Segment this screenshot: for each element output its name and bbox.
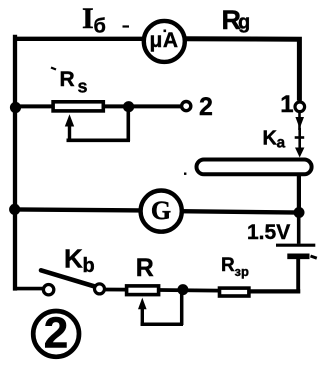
switch Kb left contact	[43, 285, 53, 295]
wire capsule to G row	[297, 176, 301, 213]
label Kb	[64, 244, 95, 278]
svg-text:a: a	[277, 135, 286, 152]
switch Ka arrow upper	[295, 113, 304, 130]
svg-text:I: I	[82, 2, 94, 35]
wire R wiper loop	[141, 291, 183, 325]
label I_b	[82, 2, 106, 38]
wiper arrow of Rs	[65, 114, 74, 142]
wire Kb to R	[105, 288, 127, 292]
speck	[184, 173, 186, 175]
wire left vertical bus	[13, 35, 17, 291]
battery B1 bottom lead	[296, 259, 300, 293]
battery B1 short plate	[287, 253, 309, 259]
wire Rzr to battery corner	[251, 289, 301, 293]
wire R to Rzr	[160, 288, 219, 292]
node junction left / G row	[9, 204, 20, 215]
svg-text:б: б	[94, 16, 106, 38]
label Rzr	[221, 255, 249, 279]
node junction left / Rs row	[10, 102, 21, 113]
svg-text:K: K	[64, 244, 83, 274]
battery B1 long plate	[276, 244, 315, 247]
rheostat R	[127, 286, 159, 295]
wire Rs wiper loop	[67, 107, 131, 141]
switch Ka arrow lower	[295, 148, 304, 158]
resistor Rzr	[220, 288, 249, 296]
wiper arrow of R	[138, 298, 147, 326]
battery B1 top lead	[297, 212, 301, 244]
node junction Rs wiper / terminal 2 wire	[123, 101, 134, 112]
svg-text:μA: μA	[150, 29, 179, 52]
svg-text:s: s	[78, 77, 88, 97]
figure number badge 2	[33, 308, 79, 357]
svg-text:1.5V: 1.5V	[247, 221, 290, 244]
wire top left segment	[13, 37, 146, 41]
svg-text:2: 2	[199, 93, 213, 121]
galvanometer G	[141, 191, 182, 232]
switch Kb right contact	[95, 284, 105, 294]
svg-text:b: b	[83, 255, 95, 277]
svg-text:R: R	[221, 255, 235, 276]
wire top right segment	[183, 39, 299, 101]
node junction battery / G row	[294, 207, 305, 218]
wire bottom row left stub	[13, 287, 44, 291]
wire G row left	[13, 209, 142, 210]
label Rs	[51, 68, 88, 97]
svg-text:2: 2	[44, 308, 68, 357]
svg-text:K: K	[263, 128, 278, 150]
switch Ka blade (capsule)	[197, 160, 312, 175]
label Ka	[263, 128, 286, 152]
svg-text:1: 1	[280, 91, 293, 118]
terminal 2 (binding post)	[182, 102, 191, 111]
terminal 1 (binding post)	[295, 102, 305, 112]
svg-text:R: R	[136, 254, 154, 282]
switch Kb blade	[41, 270, 95, 286]
wire G row right	[180, 211, 301, 212]
label Rg	[222, 5, 251, 35]
svg-text:G: G	[151, 196, 171, 225]
ammeter U1 (microammeter)	[144, 21, 185, 62]
svg-text:R: R	[60, 68, 75, 91]
resistor Rs	[53, 102, 103, 111]
svg-text:зр: зр	[235, 264, 249, 279]
svg-text:g: g	[238, 12, 250, 34]
node junction R wiper loop	[177, 284, 188, 295]
wire Rs row	[13, 104, 181, 108]
wire Ka stem with tick	[295, 128, 305, 150]
speck dash	[123, 25, 130, 27]
battery polarity tick	[311, 256, 317, 258]
